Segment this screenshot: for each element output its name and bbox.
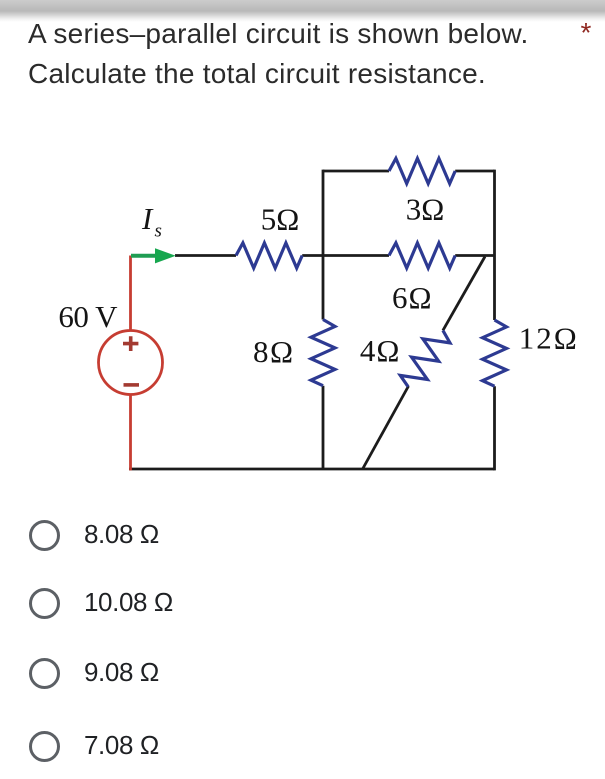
svg-text:8Ω: 8Ω [253,334,295,369]
voltage source V1 circle [99,331,163,395]
option A [28,520,30,552]
wire: top branch left segment [323,170,389,173]
svg-text:5Ω: 5Ω [261,202,300,237]
resistor R2 3-ohm [389,158,455,183]
svg-text:6Ω: 6Ω [392,280,433,315]
wire: right rail upper [493,170,496,320]
svg-text:s: s [155,221,162,242]
svg-text:12Ω: 12Ω [519,321,579,356]
required asterisk [581,17,592,49]
svg-text:4Ω: 4Ω [360,333,401,368]
option C [28,658,30,690]
top shade bar [0,0,605,22]
wire: red source bottom lead [129,394,132,470]
plus sign of source [123,336,138,351]
resistor R1 5-ohm [236,243,302,268]
option B [28,588,30,620]
resistor R4 8-ohm [311,320,335,386]
wire: left rail upper [322,170,325,320]
resistor R3 6-ohm [389,243,455,268]
resistor R6 12-ohm [483,320,507,386]
wire: middle branch right of 6-ohm [455,254,494,257]
svg-text:I: I [141,201,154,236]
svg-text:3Ω: 3Ω [406,192,445,227]
svg-text:60 V: 60 V [58,299,118,334]
wire: middle branch between 5-ohm and 6-ohm [302,254,389,257]
option D [28,731,30,763]
minus sign of source [124,383,140,387]
wire: top branch right segment [455,170,494,173]
wire: left rail lower [322,386,325,469]
current arrow Is [131,248,176,263]
question title [28,14,528,94]
wire: right rail lower [493,386,496,470]
wire: diagonal upper segment [443,257,485,331]
resistor R5 4-ohm diagonal [397,324,453,394]
wire: diagonal lower segment [363,386,409,469]
wire: bottom rail [129,468,495,471]
wire: red source top lead [129,256,132,331]
wire: middle branch from arrow to 5-ohm [175,254,236,257]
